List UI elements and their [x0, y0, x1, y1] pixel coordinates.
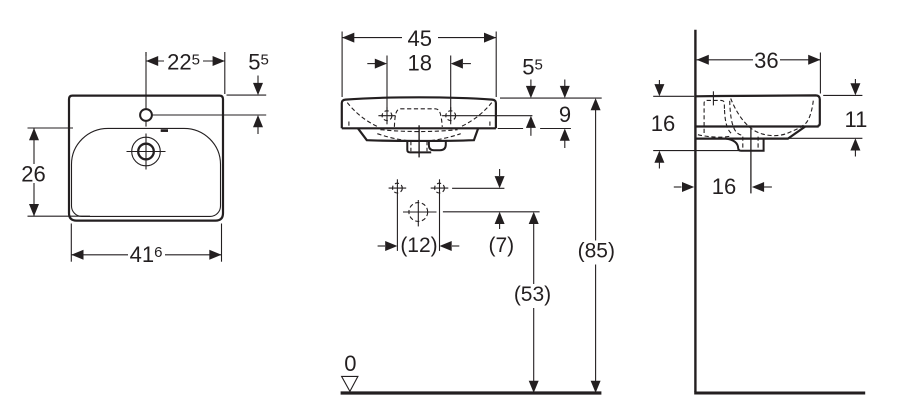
plan: drain inner circle	[138, 144, 154, 160]
svg-text:416: 416	[130, 242, 163, 267]
side view: drain centerline	[750, 128, 752, 194]
side view: hidden overflow channel inner (dashed)	[725, 110, 732, 134]
front: hidden bowl corner right (dashed)	[460, 103, 491, 127]
front: right tap hole	[446, 111, 456, 121]
front view: drain trap lip	[429, 140, 446, 150]
washbasin plan view: inner basin outline	[72, 128, 221, 216]
front view: drain housing	[407, 140, 431, 152]
svg-text:9: 9	[559, 102, 571, 127]
front: hidden deck outline (dashed)	[394, 109, 442, 127]
svg-text:18: 18	[408, 51, 432, 76]
dim 16 left top line	[653, 95, 694, 97]
dim 22.5 line+arrows	[146, 56, 225, 66]
dim 11 bottom line	[789, 137, 862, 139]
dim text 11	[844, 107, 867, 132]
fixing hole right crosshair+ext	[431, 179, 449, 251]
dim text 45	[408, 26, 432, 51]
dim text (7)	[488, 234, 514, 257]
dim 11 arrows	[850, 79, 860, 157]
side view: rim outline	[695, 95, 819, 125]
side view: hidden bowl profile (dashed)	[731, 99, 814, 136]
dim 26 extension lines	[28, 128, 91, 216]
fixing hole left crosshair+ext	[389, 179, 407, 251]
svg-text:55: 55	[522, 55, 543, 80]
dim 22.5 extension line right	[224, 52, 226, 94]
datum text 0	[344, 351, 356, 376]
svg-text:(7): (7)	[488, 234, 514, 257]
dim text (12)	[400, 234, 437, 257]
dim text (85)	[578, 240, 615, 263]
dim text 9	[559, 102, 571, 127]
dim 5.5 front arrows	[526, 80, 536, 136]
dim 18 arrows	[367, 59, 471, 69]
dim 36 line+arrows	[697, 55, 821, 65]
dim text 26	[21, 162, 45, 187]
front: hidden bowl bottom arc 2 (dashed)	[377, 134, 460, 142]
front view: under-body	[358, 128, 478, 141]
rim bottom extension right	[498, 128, 571, 130]
floor line (front view)	[341, 391, 602, 394]
fixing hole left (dashed circle)	[393, 183, 403, 193]
waste pipe crosshair	[403, 200, 437, 226]
waste pipe leader line	[443, 211, 540, 213]
svg-text:16: 16	[651, 111, 675, 136]
datum triangle	[342, 376, 358, 391]
dim text 5.5 front	[522, 55, 543, 80]
svg-text:(12): (12)	[400, 234, 437, 257]
dim text 18	[408, 51, 432, 76]
side view: hidden overflow channel outer (dashed)	[730, 101, 743, 135]
plan rim top edge extension right	[227, 94, 267, 96]
plan: drain outer circle	[132, 137, 161, 166]
plan: drain crosshair	[127, 134, 166, 170]
dim text 41.6	[130, 242, 163, 267]
dim 11 top line	[823, 94, 862, 96]
svg-text:225: 225	[167, 50, 200, 75]
svg-text:11: 11	[844, 107, 867, 132]
front view: drain centerline	[418, 125, 420, 157]
dim 36 extension line	[819, 53, 821, 94]
side view: hidden bowl floor near wall (dashed)	[698, 135, 732, 137]
front: left tap hole	[382, 111, 392, 121]
svg-text:26: 26	[21, 162, 45, 187]
floor line (side view)	[694, 392, 865, 395]
front: hidden bowl edge ticks (dashed)	[349, 122, 490, 129]
dim 41.6 line+arrows	[71, 250, 221, 260]
dim text 16 bottom	[712, 174, 736, 199]
plan: faucet hole leader line to 5.5 dim	[152, 114, 266, 116]
side view: drain housing	[726, 139, 763, 151]
dim 26 line+arrows	[29, 128, 39, 216]
front: hidden bowl bottom arc 1 (dashed)	[380, 130, 457, 132]
dim 22.5 extension line (faucet axis)	[145, 52, 147, 56]
plan: faucet hole	[140, 109, 152, 121]
svg-text:36: 36	[754, 48, 778, 73]
side view: hidden overflow pocket (dashed)	[704, 100, 724, 133]
svg-text:45: 45	[408, 26, 432, 51]
front: hidden bowl corner left (dashed)	[347, 103, 378, 127]
dim 5.5 plan arrows	[253, 76, 263, 135]
dim text 16 left	[651, 111, 675, 136]
svg-text:(85): (85)	[578, 240, 615, 263]
dim 16 bottom arrows	[674, 182, 772, 192]
dim 16 left arrows	[654, 80, 664, 169]
front: left tap hole crosshair	[378, 107, 395, 124]
svg-text:55: 55	[248, 50, 269, 75]
plan: overflow slot	[161, 129, 168, 132]
plan: faucet hole centerline (vertical)	[145, 52, 147, 127]
dim 16 left bottom line	[653, 150, 740, 152]
dim (53) line+arrows	[529, 212, 539, 393]
dim 41.6 extension lines	[71, 224, 221, 262]
dim (12) arrows	[378, 241, 460, 251]
rim top extension right (for 5.5/9/85)	[500, 97, 602, 99]
svg-text:0: 0	[344, 351, 356, 376]
side view: faucet axis tick	[712, 91, 714, 105]
dim (7) arrows	[495, 169, 505, 229]
side view: rim bottom edge	[695, 125, 818, 127]
waste pipe circle (dashed)	[409, 203, 428, 222]
dim text 22.5	[167, 50, 200, 75]
fixing holes leader line	[452, 187, 504, 189]
dim 45 line+arrows	[342, 33, 496, 43]
front view: rim bottom edge	[342, 127, 496, 129]
svg-text:16: 16	[712, 174, 736, 199]
side view: under-body	[695, 127, 805, 139]
dim text (53)	[514, 283, 551, 306]
dim 45 extension lines	[342, 32, 496, 98]
washbasin plan view: outer rim	[69, 96, 223, 221]
front view: drain hidden edges (dashed)	[411, 141, 427, 151]
front: right tap hole crosshair	[442, 107, 532, 124]
dim text 5.5 plan	[248, 50, 269, 75]
side view: hidden drain edges (dashed)	[743, 137, 758, 152]
dim 18 extension lines	[387, 56, 451, 111]
wall line	[694, 30, 696, 392]
dim text 36	[754, 48, 778, 73]
dim 9 arrows	[560, 80, 570, 149]
dim (85) line+arrows	[591, 98, 601, 393]
front view: rim outline	[342, 97, 496, 128]
fixing hole right (dashed circle)	[435, 183, 445, 193]
svg-text:(53): (53)	[514, 283, 551, 306]
